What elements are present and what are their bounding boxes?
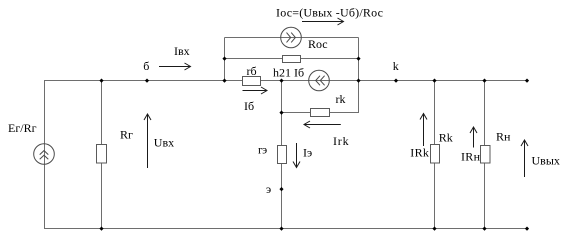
svg-text:Rг: Rг [120, 128, 133, 142]
resistor Rос [283, 56, 301, 63]
arrow IRн (up) [473, 127, 475, 148]
junction Rн bottom [482, 227, 486, 231]
wire Rн vertical branch [484, 81, 486, 229]
svg-text:rэ: rэ [258, 143, 267, 157]
svg-text:Uвх: Uвх [154, 136, 174, 150]
svg-text:IRk: IRk [410, 146, 429, 160]
svg-text:Uвых: Uвых [532, 153, 560, 167]
wire feedback right vertical [358, 38, 360, 81]
svg-text:Iос=(Uвых -Uб)/Rос: Iос=(Uвых -Uб)/Rос [276, 6, 383, 20]
arrow Uвых (up) [524, 140, 526, 177]
wire bottom horizontal [44, 228, 528, 230]
svg-text:б: б [143, 59, 149, 73]
node б junction dot [145, 79, 149, 83]
arrow Uвх (up) [147, 114, 149, 168]
arrow Iб (right) [243, 90, 268, 92]
junction Rг top [99, 79, 103, 83]
wire left vertical (source branch) [44, 81, 46, 229]
resistor Rk [431, 145, 440, 164]
junction rk branch on rэ wire [279, 111, 283, 115]
svg-text:Eг/Rг: Eг/Rг [8, 121, 37, 135]
arrow Iэ (down) [296, 143, 298, 168]
junction rэ bottom [279, 227, 283, 231]
arrow Iвх (right) [159, 66, 191, 68]
arrow Iос (right, under formula) [302, 21, 344, 23]
svg-text:h21 Iб: h21 Iб [273, 66, 304, 80]
junction feedback-left on main wire [222, 79, 226, 83]
wire middle feedback branch (Rос) [225, 58, 359, 60]
resistor rэ [278, 146, 287, 164]
current source Iос [281, 27, 302, 48]
wire rэ vertical branch [281, 81, 283, 229]
wire Rг vertical branch [101, 81, 103, 229]
resistor rk [311, 109, 330, 117]
junction rэ top on main wire [279, 79, 283, 83]
junction Rk bottom [432, 227, 436, 231]
arrow Irk (left) [304, 124, 341, 126]
wire feedback left vertical [224, 38, 226, 81]
wire Rk vertical branch [434, 81, 436, 229]
svg-text:Iэ: Iэ [303, 146, 312, 160]
svg-text:Rk: Rk [439, 131, 453, 145]
junction feedback-left on Rос wire [222, 57, 226, 61]
main wire right end dot [525, 79, 529, 83]
junction Rk top [432, 79, 436, 83]
junction feedback-right on main wire [356, 79, 360, 83]
wire rk loop [282, 81, 359, 113]
junction Rн top [482, 79, 486, 83]
junction feedback-right on Rос wire [356, 57, 360, 61]
svg-text:rk: rk [336, 92, 346, 106]
node э junction dot [279, 187, 283, 191]
svg-text:Iб: Iб [244, 99, 254, 113]
svg-text:IRн: IRн [461, 149, 481, 163]
current source h21Iб [309, 70, 330, 91]
svg-text:Irk: Irk [333, 134, 349, 148]
svg-text:Rос: Rос [308, 37, 328, 51]
junction Rг bottom [99, 227, 103, 231]
svg-text:k: k [393, 59, 399, 73]
node k junction dot [394, 79, 398, 83]
resistor rб [243, 77, 261, 86]
svg-text:э: э [266, 182, 271, 196]
svg-text:Rн: Rн [496, 130, 511, 144]
svg-text:Iвх: Iвх [174, 44, 190, 58]
wire main horizontal (б-k row) [44, 80, 528, 82]
current source Eг/Rг [34, 144, 55, 165]
arrow IRk (up) [423, 114, 425, 147]
resistor Rн [481, 146, 491, 164]
bottom wire right end dot [525, 227, 529, 231]
svg-text:rб: rб [247, 64, 257, 78]
wire top feedback branch (Iос) [225, 37, 359, 39]
resistor Rг [97, 145, 107, 164]
